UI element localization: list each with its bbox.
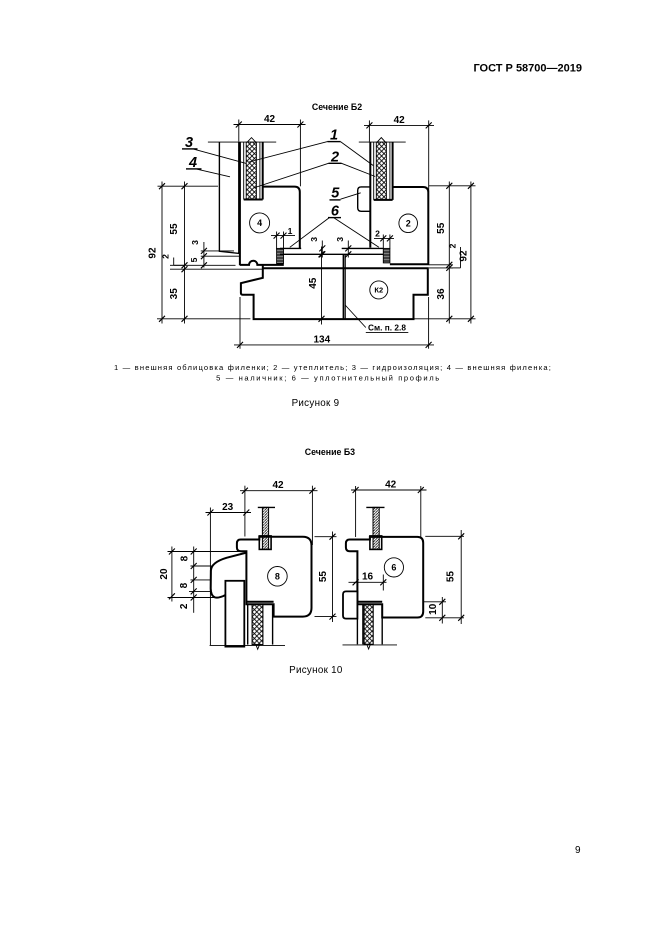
svg-text:10: 10 (428, 603, 439, 615)
svg-text:9: 9 (575, 845, 581, 856)
insulation strip left (piece 2) (246, 142, 256, 199)
dimension 42 (right frame) (364, 124, 434, 126)
svg-text:23: 23 (222, 502, 234, 513)
insulation strip right (376, 142, 386, 200)
svg-text:К2: К2 (374, 286, 383, 295)
svg-text:42: 42 (272, 480, 284, 491)
circled 2 (399, 214, 418, 233)
svg-text:42: 42 (394, 115, 406, 126)
svg-text:1: 1 (288, 226, 293, 236)
drip beak (211, 553, 247, 598)
profile 8 body (237, 537, 312, 617)
svg-text:Сечение Б2: Сечение Б2 (312, 102, 362, 112)
small dims 3 and 5 left (203, 242, 205, 268)
left dimension column (161, 182, 163, 324)
insulation sandwich left (247, 604, 249, 644)
svg-text:1 — внешняя облицовка филенки;: 1 — внешняя облицовка филенки; 2 — утепл… (114, 363, 552, 372)
svg-text:16: 16 (362, 572, 374, 583)
fig10 left dims (171, 547, 173, 602)
svg-text:35: 35 (169, 288, 180, 300)
screw right profile (366, 506, 384, 508)
fig10 dim 55 right profile (460, 530, 462, 624)
svg-text:См. п. 2.8: См. п. 2.8 (368, 323, 406, 333)
outer board (piece 4) (219, 142, 238, 253)
svg-text:3: 3 (190, 240, 200, 245)
frame 4 left edge (239, 142, 241, 265)
svg-text:8: 8 (275, 571, 280, 581)
svg-text:2: 2 (179, 603, 190, 609)
right dimension column (448, 182, 450, 324)
svg-text:42: 42 (264, 114, 276, 125)
svg-text:2: 2 (406, 218, 411, 228)
svg-text:6: 6 (391, 563, 396, 573)
screw left profile (258, 506, 275, 508)
frame 2 left edge (369, 142, 371, 248)
trim piece 5 (358, 187, 371, 211)
svg-text:ГОСТ Р 58700—2019: ГОСТ Р 58700—2019 (473, 63, 582, 75)
screw seat left (259, 536, 271, 550)
fig10 dim 42 right (351, 489, 427, 491)
fig10 dim 55 left profile (332, 532, 334, 623)
dimension 134 (234, 344, 434, 346)
svg-text:8: 8 (179, 582, 190, 588)
svg-text:2: 2 (161, 254, 171, 259)
frame profile 4 body (263, 187, 300, 249)
rebate ledge lines (280, 247, 301, 249)
svg-text:5: 5 (331, 186, 340, 202)
insulation sandwich right (356, 604, 358, 644)
svg-text:134: 134 (313, 334, 330, 345)
svg-text:55: 55 (169, 223, 180, 235)
fig10 dim 16 (349, 581, 387, 583)
dimension 45 (321, 247, 323, 325)
svg-text:Сечение Б3: Сечение Б3 (305, 447, 355, 457)
fig10 dim 10 (441, 597, 443, 624)
svg-text:42: 42 (385, 479, 397, 490)
groove wall left (262, 142, 264, 199)
small dim 1 (seal width) (271, 235, 295, 237)
seal (piece 6) left (277, 248, 284, 263)
svg-text:2: 2 (448, 243, 458, 248)
svg-text:55: 55 (318, 571, 329, 583)
screw seat right (370, 536, 382, 550)
svg-text:45: 45 (308, 277, 319, 289)
top cut line left (208, 141, 276, 143)
fig10 dim 42 left (240, 490, 318, 492)
board under profile 8 (225, 581, 244, 647)
profile 6 body (346, 537, 423, 618)
svg-text:55: 55 (436, 222, 447, 234)
side protrusion (343, 591, 357, 618)
svg-text:3: 3 (335, 237, 345, 242)
seal right (383, 248, 390, 263)
dimension 42 (left frame) (234, 124, 306, 126)
svg-text:55: 55 (446, 571, 457, 583)
svg-text:2: 2 (375, 229, 380, 239)
fig10 dim 23 (206, 512, 252, 514)
sill block K2 outline (241, 265, 428, 319)
svg-text:Рисунок 9: Рисунок 9 (292, 398, 340, 409)
top cut line right (359, 141, 406, 143)
svg-text:5: 5 (189, 257, 199, 262)
circled 8 (268, 567, 288, 587)
svg-text:5 — наличник; 6 — уплотнительн: 5 — наличник; 6 — уплотнительный профиль (216, 374, 441, 383)
frame profile 2 body (390, 187, 428, 264)
groove wall right (392, 142, 394, 200)
svg-text:20: 20 (159, 568, 170, 580)
svg-text:Рисунок 10: Рисунок 10 (289, 665, 343, 676)
svg-text:92: 92 (148, 247, 159, 259)
small dim 2 (right seal width) (374, 237, 394, 239)
circled 6 (384, 558, 403, 577)
middle joint lines (342, 254, 344, 319)
small dim 3 gap a (321, 241, 323, 258)
circled 4 (250, 213, 270, 233)
svg-text:3: 3 (309, 237, 319, 242)
waterproofing lines right (373, 142, 375, 200)
svg-text:8: 8 (179, 555, 190, 561)
waterproofing lines (piece 3) (243, 142, 245, 199)
small dim 3 gap b (347, 241, 349, 258)
circled K2 (370, 281, 388, 299)
svg-text:4: 4 (257, 218, 262, 228)
svg-text:36: 36 (436, 288, 447, 300)
